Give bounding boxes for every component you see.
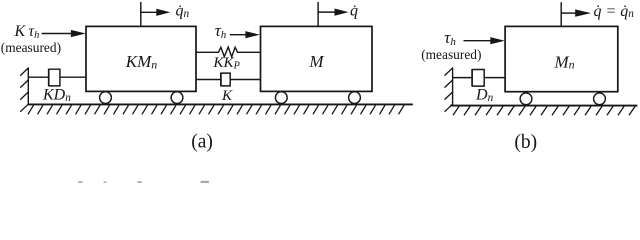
damper Dn piston plate [471,69,473,87]
mass KMn box [86,26,196,91]
wheel KMn right [171,92,183,104]
svg-text:M: M [308,52,324,71]
force arrow K tau_h shaft [42,33,72,35]
ground line (b) [450,105,637,107]
velocity arrow qn-dot shaft [141,11,158,13]
velocity arrow qn-dot head [156,9,170,16]
damper K cylinder cup [221,73,230,86]
svg-text:(b): (b) [514,132,537,153]
svg-text:q̇n: q̇n [176,3,190,20]
svg-text:KMn: KMn [125,52,158,71]
velocity indicator stem on Mn [560,2,562,26]
velocity indicator stem on M [317,2,319,26]
damper Dn rod left [453,77,473,79]
damper KDn rod left [28,76,48,78]
damper K rod right [230,79,260,81]
velocity arrow q-dot head [335,9,349,16]
wheel Mn left [520,93,532,105]
svg-text:K τh: K τh [14,23,40,41]
ground hatching (a) [28,105,404,114]
force arrow tau_h (a) shaft [230,34,246,36]
wheel KMn left [100,92,112,104]
wall W1 (left fixed support, subfigure a) [27,67,29,105]
cropped caption text remnants at bottom edge [78,181,209,183]
svg-text:q̇: q̇ [350,3,358,20]
force arrow K tau_h head [71,30,86,37]
damper KDn rod right [60,76,86,78]
mass Mn box [505,26,618,91]
wheel M left [275,92,287,104]
velocity indicator stem on KMn [140,2,142,26]
ground line (a) [28,103,413,105]
svg-text:τh: τh [444,28,456,48]
damper K rod left [196,79,221,81]
velocity arrow (b) shaft [561,12,576,14]
svg-text:Mn: Mn [554,52,575,71]
force arrow tau_h (b) head [490,37,505,44]
svg-text:(measured): (measured) [1,40,61,55]
wall W1 hatching [20,68,28,112]
svg-text:q̇ = q̇n: q̇ = q̇n [594,3,635,20]
svg-text:KDn: KDn [42,87,71,104]
velocity arrow q-dot shaft [318,11,335,13]
svg-text:K: K [221,88,233,104]
svg-text:KKP: KKP [212,54,240,72]
svg-text:(a): (a) [191,132,213,153]
velocity arrow (b) head [575,9,591,16]
mass M box [261,26,373,91]
wheel Mn right [594,93,606,105]
force arrow tau_h (b) shaft [464,40,492,42]
svg-text:Dn: Dn [475,87,494,104]
ground hatching (b) [453,106,635,115]
svg-text:τh: τh [215,21,227,41]
spring KKp (zigzag between masses) [196,47,261,57]
svg-text:(measured): (measured) [421,47,481,62]
force arrow tau_h (a) head [245,31,260,38]
wheel M right [349,92,361,104]
damper KDn cylinder cup [49,69,60,86]
damper KDn piston plate [48,69,50,87]
damper Dn cylinder cup [472,70,484,87]
damper Dn rod right [484,77,505,79]
wall W2 hatching [445,68,453,112]
wall W2 (fixed support, subfigure b) [452,67,454,105]
damper K piston plate [220,73,222,87]
